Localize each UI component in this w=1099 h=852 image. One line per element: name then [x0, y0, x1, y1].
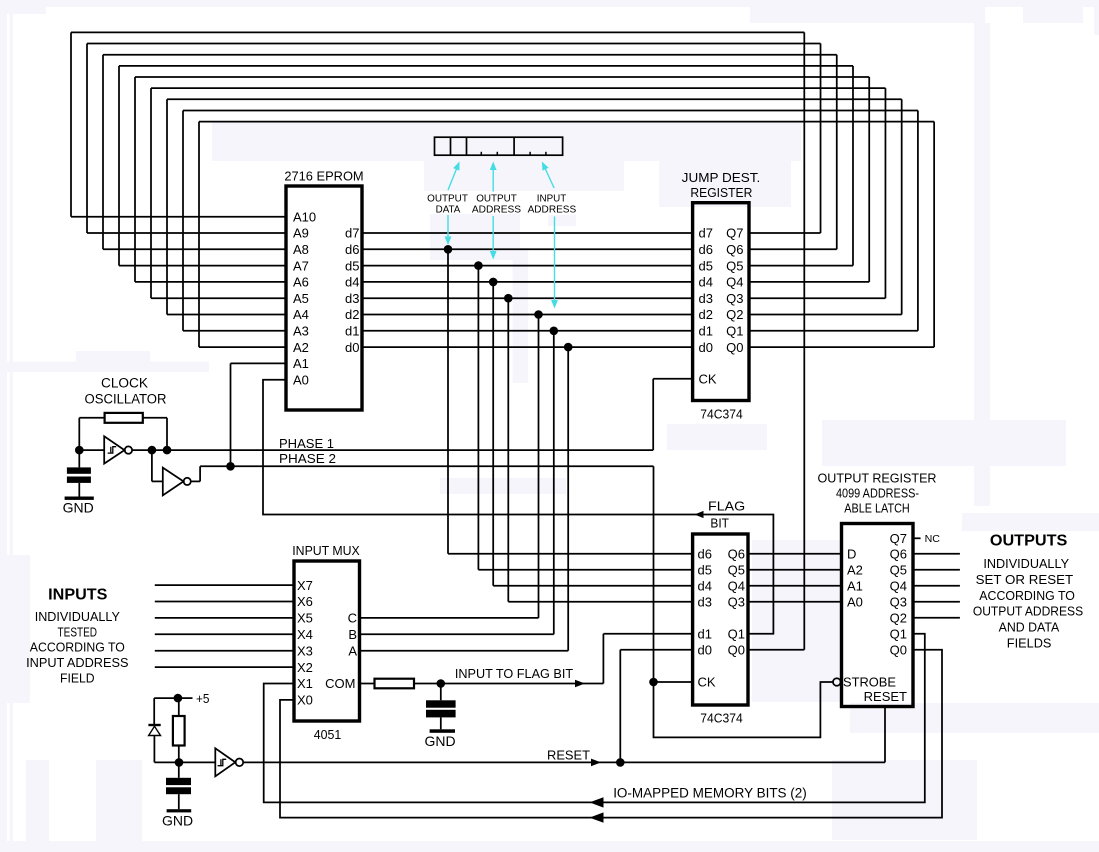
wire top bus line 2 (jump Q6 to EPROM A8) [103, 55, 837, 250]
node junction flag CK [649, 678, 658, 687]
wire strobe path [654, 682, 834, 737]
wire R1 right lead [143, 418, 167, 450]
EPROM data pin labels d7-d0 [345, 226, 359, 355]
svg-text:OSCILLATOR: OSCILLATOR [85, 391, 167, 406]
EPROM address pin labels A10-A0 [293, 209, 316, 387]
svg-text:INDIVIDUALLY: INDIVIDUALLY [35, 609, 120, 624]
flag bit arrowhead [695, 511, 704, 518]
wire jump Q3 stub [749, 297, 885, 299]
input mux select pin labels [348, 611, 358, 659]
svg-text:A10: A10 [293, 209, 316, 224]
svg-text:d6: d6 [699, 242, 713, 257]
svg-text:OUTPUT ADDRESS: OUTPUT ADDRESS [973, 603, 1083, 618]
svg-text:A2: A2 [847, 563, 863, 578]
ground GND3 [162, 809, 193, 828]
svg-text:INPUTS: INPUTS [48, 587, 107, 604]
svg-text:Q5: Q5 [890, 563, 907, 578]
svg-text:A2: A2 [293, 340, 309, 355]
svg-text:4051: 4051 [314, 727, 342, 742]
inverter U3C schmitt [215, 748, 243, 776]
svg-text:AND DATA: AND DATA [999, 619, 1060, 634]
node junction on d3 line [504, 294, 513, 303]
strobe inverter bubble [833, 678, 841, 686]
wire diode branch top [154, 698, 178, 724]
wire flag Q0 riser to top bus [803, 32, 805, 649]
wire input X6 [155, 601, 294, 603]
svg-text:NC: NC [925, 534, 940, 545]
svg-text:4099 ADDRESS-: 4099 ADDRESS- [836, 486, 919, 500]
svg-text:CK: CK [698, 675, 716, 690]
diode D1 [148, 725, 160, 736]
wire EPROM d1 tap to mux select B [360, 331, 554, 635]
svg-text:ACCORDING TO: ACCORDING TO [30, 640, 125, 655]
wire jump register Q2 riser [901, 99, 903, 314]
arrowhead io line 1 [590, 797, 604, 807]
flag register U4 box [693, 534, 748, 705]
svg-text:INPUT ADDRESS: INPUT ADDRESS [26, 655, 129, 670]
inverter U3B [163, 468, 191, 496]
annotation arrow output address down [490, 216, 497, 260]
label reset [547, 748, 590, 763]
label inputs heading [48, 587, 107, 604]
wire jump Q5 stub [749, 265, 853, 267]
wire EPROM d3 tap to flag d3 [508, 298, 692, 602]
svg-text:Q5: Q5 [726, 258, 743, 273]
label +5 [196, 691, 210, 706]
svg-text:CLOCK: CLOCK [101, 376, 148, 391]
node junction on d4 line [489, 278, 498, 287]
node junction on d2 line [534, 310, 543, 319]
jump register title line 1 [682, 170, 761, 185]
node junction on d0 line [564, 343, 573, 352]
wire A1 riser [231, 363, 287, 466]
wire jump register Q6 riser [836, 55, 838, 250]
wire flag d1 from input-to-flag [603, 634, 692, 684]
svg-text:d2: d2 [699, 307, 713, 322]
label input to flag bit [455, 666, 573, 681]
svg-text:A7: A7 [293, 258, 309, 273]
svg-text:Q7: Q7 [726, 226, 743, 241]
svg-text:X7: X7 [297, 578, 313, 593]
wire d3 bus EPROM to jump register [362, 297, 693, 299]
jump register CK pin label [699, 372, 717, 387]
wire top bus line 5 (jump Q3 to EPROM A5) [151, 88, 885, 298]
svg-text:Q4: Q4 [890, 579, 907, 594]
wire d0 bus EPROM to jump register [362, 346, 693, 348]
4099 output pin labels [890, 531, 907, 658]
label input address [528, 192, 577, 215]
wire flag register CK [654, 681, 693, 683]
wire top bus line 6 (jump Q2 to EPROM A4) [167, 99, 902, 314]
flag register part number 74C374 [700, 711, 743, 726]
svg-text:SET OR RESET: SET OR RESET [976, 572, 1074, 587]
arrowhead input to flag bit [575, 680, 585, 688]
svg-text:FIELD: FIELD [60, 670, 95, 685]
svg-text:2716 EPROM: 2716 EPROM [284, 169, 363, 184]
flag register pin labels [698, 547, 746, 658]
wire 4099 Q3 output stub [913, 601, 960, 603]
wire 4099 Q1 to X1 loop [264, 634, 925, 803]
svg-text:X2: X2 [297, 660, 313, 675]
label NC [925, 534, 940, 545]
svg-text:REGISTER: REGISTER [690, 185, 752, 200]
wire phase 2 riser down [653, 466, 655, 682]
svg-text:X1: X1 [297, 676, 313, 691]
svg-text:+5: +5 [196, 691, 210, 706]
2716 EPROM U1 box [286, 186, 362, 410]
svg-text:JUMP DEST.: JUMP DEST. [682, 170, 761, 185]
label clock oscillator [85, 376, 167, 407]
wire jump register Q5 riser [852, 66, 854, 266]
svg-text:PHASE 1: PHASE 1 [279, 436, 334, 451]
node junction phase2/A1 [226, 462, 235, 471]
svg-text:A0: A0 [847, 595, 863, 610]
wire flag Q4 to 4099 A1 [748, 585, 842, 587]
label io-mapped memory bits [613, 785, 807, 800]
resistor R3 series [375, 679, 415, 689]
wire inverter U3C input [179, 761, 215, 763]
label output data [427, 192, 468, 215]
node junction on d5 line [474, 261, 483, 270]
svg-text:A8: A8 [293, 242, 309, 257]
wire 4099 Q2 output stub [913, 617, 960, 619]
svg-text:Q2: Q2 [726, 307, 743, 322]
svg-text:74C374: 74C374 [700, 711, 743, 726]
svg-text:d6: d6 [698, 547, 712, 562]
wire R2 leads [178, 698, 180, 762]
svg-text:GND: GND [63, 499, 94, 515]
svg-text:X5: X5 [297, 611, 313, 626]
capacitor C3 [166, 762, 191, 809]
svg-text:FLAG: FLAG [708, 498, 745, 513]
wire top bus line 7 (jump Q1 to EPROM A3) [183, 110, 918, 330]
wire EPROM d6 tap to flag d6 [448, 249, 693, 554]
wire 4099 Q5 output stub [913, 569, 960, 571]
svg-text:Q1: Q1 [890, 627, 907, 642]
label outputs description [973, 556, 1083, 651]
svg-text:A1: A1 [847, 579, 863, 594]
svg-text:X3: X3 [297, 643, 313, 658]
resistor R1 feedback [105, 413, 143, 423]
node junction reset/flag d0 [616, 758, 625, 767]
wire phase 1 riser to jump CK [653, 379, 692, 450]
svg-text:Q6: Q6 [726, 242, 743, 257]
label output address [472, 192, 521, 215]
svg-text:A4: A4 [293, 307, 309, 322]
svg-text:BIT: BIT [710, 515, 729, 530]
svg-text:A6: A6 [293, 275, 309, 290]
svg-text:A1: A1 [293, 356, 309, 371]
svg-text:Q7: Q7 [890, 531, 907, 546]
node junction +5 [174, 694, 183, 703]
4099 RESET pin label [864, 689, 907, 704]
node junction clock out [148, 446, 157, 455]
svg-text:A0: A0 [293, 372, 309, 387]
svg-text:COM: COM [325, 676, 355, 691]
arrowhead reset [591, 759, 601, 767]
annotation arrow output data to d6 wire [445, 215, 452, 245]
node junction filter cap [437, 679, 446, 688]
label phase 1 [279, 436, 334, 451]
svg-text:FIELDS: FIELDS [1007, 635, 1052, 650]
wire jump Q7 stub [749, 232, 821, 234]
svg-text:d1: d1 [699, 324, 713, 339]
svg-text:Q1: Q1 [728, 627, 745, 642]
wire input X3 [155, 650, 294, 652]
wire phase 2 line [191, 466, 654, 481]
svg-text:Q5: Q5 [728, 563, 745, 578]
svg-text:Q6: Q6 [890, 547, 907, 562]
input mux COM pin label [325, 676, 355, 691]
wire +5 stub [178, 697, 193, 699]
node junction clock in [75, 446, 84, 455]
wire reset line [243, 761, 885, 763]
svg-text:GND: GND [162, 812, 193, 828]
wire EPROM d4 tap to flag d4 [493, 282, 692, 586]
flag register CK pin label [698, 675, 716, 690]
jump register pin labels [699, 226, 744, 355]
wire top bus line 4 (jump Q4 to EPROM A6) [135, 77, 869, 282]
annotation arrow input address to word box [542, 162, 554, 189]
wire EPROM d0 tap to mux select A [360, 347, 569, 651]
svg-text:IO-MAPPED MEMORY BITS (2): IO-MAPPED MEMORY BITS (2) [613, 785, 807, 800]
svg-text:TESTED: TESTED [58, 624, 98, 639]
svg-text:d5: d5 [345, 258, 359, 273]
svg-text:X6: X6 [297, 594, 313, 609]
wire flag bit line to EPROM A0 [263, 380, 773, 634]
wire input X5 [155, 617, 294, 619]
wire EPROM d5 tap to flag d5 [478, 266, 692, 570]
label flag [708, 498, 745, 513]
svg-text:RESET: RESET [547, 748, 590, 763]
label bit [710, 515, 729, 530]
svg-text:d4: d4 [345, 275, 359, 290]
2716 EPROM title [284, 169, 363, 184]
svg-text:d3: d3 [699, 291, 713, 306]
svg-text:d5: d5 [698, 563, 712, 578]
wire jump register Q3 riser [884, 88, 886, 298]
svg-text:Q0: Q0 [890, 643, 907, 658]
wire input X2 [155, 666, 294, 668]
node junction on d6 line [444, 245, 453, 254]
svg-text:74C374: 74C374 [700, 406, 743, 421]
node junction on d1 line [550, 327, 559, 336]
inverter U3A schmitt [104, 436, 132, 463]
svg-text:Q1: Q1 [726, 324, 743, 339]
wire d7 bus EPROM to jump register [362, 232, 693, 234]
capacitor C2 [426, 684, 456, 730]
svg-text:d1: d1 [698, 627, 712, 642]
wire jump Q2 stub [749, 314, 902, 316]
svg-text:OUTPUTS: OUTPUTS [990, 533, 1068, 550]
wire top bus line 3 (jump Q5 to EPROM A7) [119, 66, 853, 266]
svg-text:GND: GND [424, 733, 455, 749]
svg-text:Q3: Q3 [726, 291, 743, 306]
svg-text:Q3: Q3 [890, 595, 907, 610]
output register title [818, 472, 937, 516]
svg-text:DATA: DATA [436, 204, 461, 216]
wire jump Q4 stub [749, 281, 869, 283]
wire 4099 Q6 output stub [913, 553, 960, 555]
svg-text:d2: d2 [345, 307, 359, 322]
wire Q7 NC stub [913, 537, 921, 539]
svg-text:d0: d0 [698, 643, 712, 658]
wire d2 bus EPROM to jump register [362, 314, 693, 316]
capacitor C1 [67, 450, 91, 496]
wire d4 bus EPROM to jump register [362, 281, 693, 283]
svg-text:d7: d7 [699, 226, 713, 241]
svg-text:Q4: Q4 [726, 275, 743, 290]
svg-text:d1: d1 [345, 324, 359, 339]
svg-text:d4: d4 [698, 579, 712, 594]
svg-text:d7: d7 [345, 226, 359, 241]
svg-text:INPUT MUX: INPUT MUX [292, 543, 360, 558]
input mux title [292, 543, 360, 558]
wire jump register Q0 riser [933, 122, 935, 348]
svg-text:Q6: Q6 [728, 547, 745, 562]
wire 4099 Q0 to X0 loop [280, 650, 942, 818]
svg-text:INPUT TO FLAG BIT: INPUT TO FLAG BIT [455, 666, 573, 681]
svg-text:C: C [348, 611, 357, 626]
svg-text:Q2: Q2 [890, 611, 907, 626]
svg-text:STROBE: STROBE [843, 675, 896, 690]
wire flag d0 from reset [620, 650, 692, 763]
jump register part number 74C374 [700, 406, 743, 421]
instruction word format box [435, 137, 563, 155]
svg-text:d4: d4 [699, 275, 713, 290]
node junction R1 right [163, 446, 172, 455]
svg-text:CK: CK [699, 372, 717, 387]
annotation arrow input address down [551, 217, 558, 309]
wire input X4 [155, 633, 294, 635]
wire input to flag bit line [414, 683, 603, 685]
wire COM output [360, 683, 375, 685]
svg-text:B: B [348, 627, 357, 642]
ground GND1 [63, 497, 94, 516]
label outputs heading [990, 533, 1068, 550]
annotation arrow output address to word box [490, 162, 497, 192]
svg-text:X0: X0 [297, 693, 313, 708]
svg-text:RESET: RESET [864, 689, 907, 704]
wire input X7 [155, 584, 294, 586]
svg-text:OUTPUT: OUTPUT [427, 192, 468, 204]
wire flag Q0 to riser [748, 649, 804, 651]
svg-text:A9: A9 [293, 226, 309, 241]
wire jump register Q7 riser [820, 44, 822, 233]
svg-text:OUTPUT REGISTER: OUTPUT REGISTER [818, 472, 937, 486]
wire jump register Q4 riser [868, 77, 870, 282]
wire jump Q6 stub [749, 248, 837, 250]
annotation arrow output data to word box [448, 162, 460, 191]
wire flag Q3 to 4099 A0 [748, 601, 842, 603]
4099 input pin labels [847, 547, 863, 610]
svg-text:INDIVIDUALLY: INDIVIDUALLY [983, 556, 1069, 571]
svg-text:d3: d3 [698, 595, 712, 610]
svg-text:A5: A5 [293, 291, 309, 306]
wire R1 left lead [79, 418, 104, 450]
node junction inverter input [175, 758, 184, 767]
svg-text:INPUT: INPUT [537, 192, 567, 204]
input mux X pin labels [297, 578, 313, 708]
svg-text:A3: A3 [293, 324, 309, 339]
jump register title line 2 [690, 185, 752, 200]
wire d6 bus EPROM to jump register [362, 248, 693, 250]
label inputs description [26, 609, 129, 686]
svg-text:Q3: Q3 [728, 595, 745, 610]
svg-text:ADDRESS: ADDRESS [472, 204, 521, 216]
svg-text:ADDRESS: ADDRESS [528, 204, 577, 216]
svg-text:ABLE LATCH: ABLE LATCH [844, 502, 910, 516]
wire 4099 Q4 output stub [913, 585, 960, 587]
wire top bus line 8 (jump Q0 to EPROM A2) [199, 122, 934, 348]
wire flag Q6 to 4099 D [748, 553, 842, 555]
output register U5 box [842, 524, 914, 707]
input mux part number 4051 [314, 727, 342, 742]
wire inverter U3A input [79, 449, 104, 451]
svg-text:Q0: Q0 [726, 340, 743, 355]
svg-text:PHASE 2: PHASE 2 [279, 451, 336, 466]
wire inverter U3B input branch [152, 450, 163, 481]
wire jump register Q1 riser [917, 110, 919, 330]
wire top bus line 1 (jump Q7 to EPROM A9) [87, 44, 821, 233]
wire jump Q0 stub [749, 346, 934, 348]
svg-text:OUTPUT: OUTPUT [476, 192, 517, 204]
label phase 2 [279, 451, 336, 466]
svg-text:ACCORDING TO: ACCORDING TO [979, 588, 1075, 603]
svg-text:Q4: Q4 [728, 579, 745, 594]
svg-text:d5: d5 [699, 258, 713, 273]
svg-text:A: A [348, 643, 357, 658]
jump dest. register U2 box [693, 203, 749, 401]
svg-text:X4: X4 [297, 627, 313, 642]
wire d1 bus EPROM to jump register [362, 330, 693, 332]
arrowhead io line 2 [590, 812, 604, 822]
resistor R2 pullup [173, 716, 185, 746]
wire EPROM d2 tap to mux select C [360, 315, 539, 618]
wire 4099 reset pin drop [884, 707, 886, 763]
wire top bus line 0 (flag Q0 to EPROM A10) [71, 32, 804, 216]
wire flag Q5 to 4099 A2 [748, 569, 842, 571]
wire d5 bus EPROM to jump register [362, 265, 693, 267]
svg-text:D: D [847, 547, 856, 562]
svg-text:d3: d3 [345, 291, 359, 306]
wire phase 1 line [132, 449, 653, 451]
svg-text:d0: d0 [699, 340, 713, 355]
svg-text:Q0: Q0 [728, 643, 745, 658]
svg-text:d0: d0 [345, 340, 359, 355]
ground GND2 [424, 729, 455, 749]
4099 STROBE pin label [843, 675, 896, 690]
input mux U6 box [294, 561, 360, 721]
svg-text:d6: d6 [345, 242, 359, 257]
wire jump Q1 stub [749, 330, 918, 332]
wire diode bottom lead [154, 736, 179, 763]
